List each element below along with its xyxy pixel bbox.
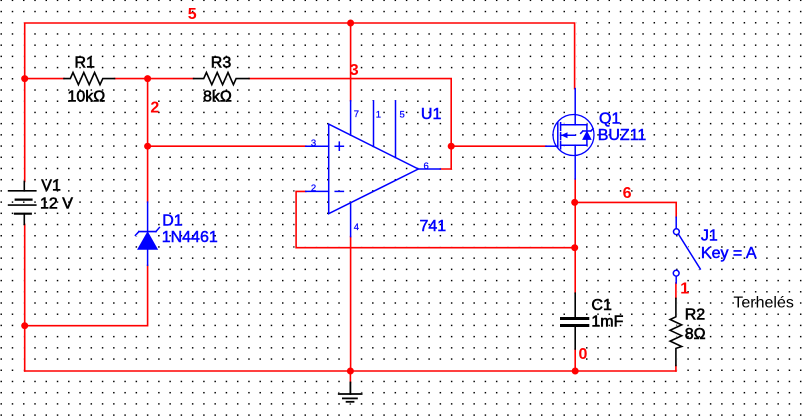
capacitor C1 bottom lead <box>574 327 576 349</box>
wire source to C1 <box>574 179 576 371</box>
svg-text:2: 2 <box>150 100 159 117</box>
svg-text:1: 1 <box>376 110 381 121</box>
capacitor C1 top lead <box>574 293 576 317</box>
mosfet Q1 body diode link <box>586 125 588 145</box>
ground stem <box>349 383 351 395</box>
wire bottom rail <box>25 370 676 372</box>
wire pin4 to bottom rail <box>350 237 352 371</box>
svg-text:V1: V1 <box>41 178 61 195</box>
capacitor C1 plate top <box>562 317 588 320</box>
svg-text:R2: R2 <box>685 307 706 324</box>
svg-text:1: 1 <box>680 281 689 298</box>
resistor R2 <box>670 298 682 365</box>
wire R2 to bottom rail <box>675 366 677 372</box>
junction net6 source <box>571 199 578 206</box>
capacitor C1 plate bottom <box>562 324 588 327</box>
junction net6 feedback <box>571 244 578 251</box>
op-amp U1 pin1 lead <box>373 101 375 147</box>
wire net5 to pin7 <box>350 23 352 101</box>
svg-text:Terhelés: Terhelés <box>733 295 793 312</box>
svg-text:6: 6 <box>424 161 429 172</box>
svg-text:0: 0 <box>579 346 588 363</box>
wire switch to R2 <box>675 283 677 298</box>
junction net0 ground <box>347 368 354 375</box>
mosfet Q1 substrate bar <box>561 134 576 136</box>
mosfet Q1 body diode triangle <box>583 132 591 140</box>
wire net2 to pin3 <box>148 145 306 147</box>
svg-text:1N4461: 1N4461 <box>162 229 218 246</box>
wire R3 to output node <box>249 79 451 169</box>
svg-text:8Ω: 8Ω <box>685 326 706 343</box>
wire white underlay <box>9 23 701 402</box>
svg-text:8kΩ: 8kΩ <box>203 88 232 105</box>
battery V1 plate short bottom <box>15 213 31 215</box>
svg-text:D1: D1 <box>162 212 183 229</box>
svg-text:C1: C1 <box>591 297 612 314</box>
switch J1 top contact <box>674 229 680 235</box>
mosfet Q1 body diode cathode bar <box>583 130 591 132</box>
diode D1 triangle <box>138 232 157 249</box>
mosfet Q1 drain bar <box>561 124 587 126</box>
diode D1 cathode wing left <box>135 232 139 236</box>
junction net5 pin7 <box>347 20 354 27</box>
svg-text:10kΩ: 10kΩ <box>68 88 106 105</box>
op-amp U1 pin7 lead <box>350 101 352 135</box>
resistor R1 <box>64 73 115 85</box>
svg-text:6: 6 <box>623 185 632 202</box>
svg-text:Key = A: Key = A <box>701 245 757 262</box>
mosfet Q1 source bar <box>561 144 587 146</box>
mosfet Q1 gate lead <box>546 145 558 147</box>
op-amp U1 pin4 lead <box>350 203 352 237</box>
diode D1 top lead <box>147 202 149 232</box>
svg-text:BUZ11: BUZ11 <box>598 127 647 144</box>
ground bar 3 <box>347 401 354 403</box>
wire R1-R3 <box>115 78 194 80</box>
svg-text:3: 3 <box>311 138 316 149</box>
ground bar 1 <box>339 393 362 395</box>
svg-text:5: 5 <box>188 6 197 23</box>
op-amp U1 pin2 lead <box>306 190 329 192</box>
svg-text:U1: U1 <box>421 106 442 123</box>
battery V1 leads <box>23 181 25 224</box>
op-amp U1 triangle <box>329 124 419 214</box>
resistor R3 <box>194 73 249 85</box>
wire ground stem <box>349 371 351 383</box>
wire net2 vertical <box>25 79 148 326</box>
svg-text:7: 7 <box>354 109 359 120</box>
svg-text:12 V: 12 V <box>40 196 73 213</box>
mosfet Q1 channel bar <box>560 123 562 149</box>
mosfet Q1 substrate arrow <box>561 132 568 138</box>
svg-text:R3: R3 <box>211 54 232 71</box>
ground bar 2 <box>343 397 357 399</box>
switch J1 blade <box>679 235 701 270</box>
mosfet Q1 source pin <box>574 145 576 179</box>
switch J1 bottom lead <box>675 276 677 283</box>
op-amp U1 pin6 lead <box>418 168 440 170</box>
svg-text:2: 2 <box>311 183 316 194</box>
switch J1 top lead <box>675 217 677 229</box>
wire feedback pin2 to source <box>296 191 575 247</box>
junction net2 R1-R3 <box>144 75 151 82</box>
battery V1 plate long <box>9 204 36 206</box>
svg-text:5: 5 <box>400 110 405 121</box>
svg-text:Q1: Q1 <box>599 110 620 127</box>
junction net3 output <box>448 143 455 150</box>
mosfet Q1 drain pin <box>574 89 576 125</box>
junction net5 R1 <box>21 75 28 82</box>
svg-text:741: 741 <box>420 218 447 235</box>
mosfet Q1 body diode cathode wings <box>581 129 593 134</box>
svg-text:J1: J1 <box>701 227 718 244</box>
diode D1 bottom lead <box>147 249 149 265</box>
svg-text:4: 4 <box>354 222 359 233</box>
op-amp U1 minus marker <box>335 190 343 192</box>
switch J1 bottom contact <box>673 270 679 276</box>
junction net2 pin3 <box>144 143 151 150</box>
op-amp U1 plus marker <box>335 142 343 150</box>
op-amp U1 pin5 lead <box>395 101 397 158</box>
junction net0 D1 <box>21 322 28 329</box>
op-amp U1 pin3 lead <box>306 145 329 147</box>
mosfet Q1 gate bar <box>557 123 559 147</box>
diode D1 cathode wing right <box>156 228 160 232</box>
svg-text:3: 3 <box>350 62 359 79</box>
wire net5 top rail <box>25 23 575 371</box>
junction net0 C1 <box>572 368 579 375</box>
battery V1 plate long top <box>9 190 36 192</box>
battery V1 plate short <box>16 199 32 201</box>
svg-text:1mF: 1mF <box>591 313 623 330</box>
wire net6 to switch <box>575 202 677 217</box>
diode D1 cathode bar <box>139 231 156 233</box>
svg-text:R1: R1 <box>75 54 96 71</box>
wire output to gate <box>440 146 546 169</box>
wire R1 left <box>25 78 64 80</box>
mosfet Q1 circle <box>553 115 594 156</box>
